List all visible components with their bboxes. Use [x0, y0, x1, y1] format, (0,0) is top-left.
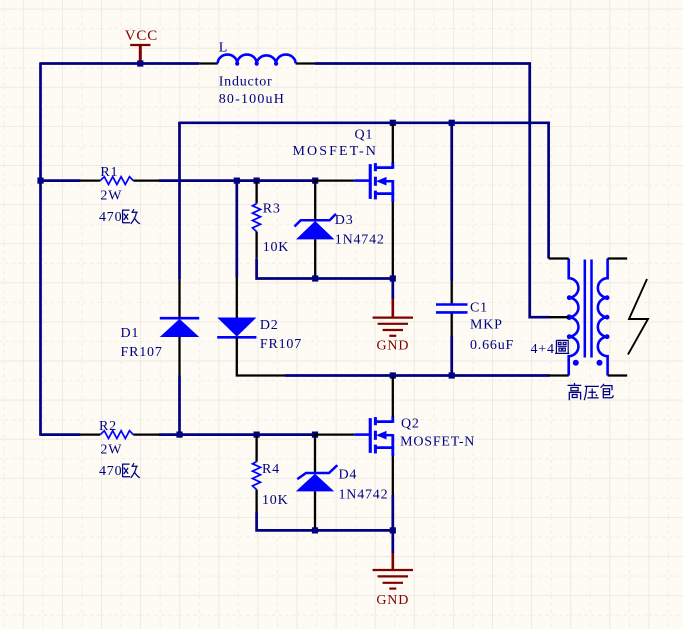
svg-text:C1: C1 — [470, 301, 488, 316]
junction C1 top — [449, 120, 455, 126]
label D3 1N4742 — [335, 233, 385, 248]
label Q2 designator — [401, 416, 420, 431]
mosfet Q1 — [315, 124, 393, 278]
label R1 470ohm — [99, 209, 140, 225]
pin Q1 drain — [392, 124, 394, 163]
label Q2 MOSFET-N — [400, 435, 475, 450]
svg-text:4+4: 4+4 — [531, 342, 555, 357]
svg-text:10K: 10K — [262, 493, 289, 508]
wire drain2 bottom horizontal — [285, 374, 550, 377]
label D3 designator — [335, 213, 354, 228]
junction at VCC tap — [137, 60, 143, 66]
pin T1 secondary top — [608, 257, 628, 259]
svg-text:470: 470 — [99, 210, 122, 225]
junction Q2 source rail — [390, 527, 396, 533]
svg-text:Q2: Q2 — [401, 416, 420, 431]
pin Q1 source — [392, 202, 394, 278]
svg-text:GND: GND — [376, 593, 409, 608]
wire gate2 line — [41, 433, 315, 436]
transformer T1 core — [585, 260, 592, 358]
label 80-100uH — [219, 92, 285, 107]
pin T1 primary bottom — [549, 374, 569, 376]
label R4 10K — [262, 493, 289, 508]
pin Q2 source — [392, 456, 394, 495]
svg-text:80-100uH: 80-100uH — [219, 92, 285, 107]
pin T1 primary top — [549, 257, 569, 259]
ground GND1 — [373, 279, 413, 336]
label Inductor — [219, 74, 273, 89]
svg-text:2W: 2W — [100, 443, 122, 458]
label L designator — [219, 41, 228, 56]
pin Q2 drain — [392, 377, 394, 417]
wire left VCC rail vertical — [39, 62, 42, 435]
svg-text:VCC: VCC — [125, 28, 158, 44]
wire gate1 line — [41, 179, 315, 182]
junction D4 top — [312, 432, 318, 438]
svg-text:R4: R4 — [262, 462, 280, 477]
power symbol VCC — [130, 45, 150, 63]
transformer T1 secondary winding — [598, 259, 610, 376]
wire D1 branch upper vertical — [178, 123, 181, 280]
label 高压包 — [568, 383, 614, 400]
label R3 designator — [263, 202, 281, 217]
svg-text:1N4742: 1N4742 — [339, 487, 389, 502]
transformer T1 primary winding — [566, 259, 578, 376]
wire R3 bottom to rail — [257, 259, 393, 279]
svg-text:MOSFET-N: MOSFET-N — [400, 435, 475, 450]
resistor R3 — [253, 181, 261, 259]
wire VCC to transformer center tap — [530, 62, 550, 317]
junction gate1 at left rail — [37, 178, 43, 184]
diode D2 — [217, 181, 285, 376]
zener D3 — [295, 181, 336, 279]
junction D3 top — [312, 178, 318, 184]
junction D2 top — [234, 178, 240, 184]
label D4 designator — [339, 467, 358, 482]
junction C1 bottom — [449, 372, 455, 378]
label Q1 designator — [355, 128, 374, 143]
label D2 designator — [260, 318, 279, 333]
svg-text:GND: GND — [377, 339, 410, 354]
label R3 10K — [263, 240, 290, 255]
svg-text:1N4742: 1N4742 — [335, 233, 385, 248]
zener D4 — [296, 435, 338, 531]
svg-text:10K: 10K — [263, 240, 290, 255]
resistor R1 — [80, 177, 160, 185]
svg-text:D3: D3 — [335, 213, 354, 228]
svg-text:0.66uF: 0.66uF — [470, 338, 514, 353]
junction Q2 drain on bottom wire — [390, 372, 396, 378]
spark gap — [628, 279, 648, 355]
inductor L — [199, 55, 315, 66]
wire Q2 source to rail — [391, 495, 394, 530]
label R1 designator — [100, 165, 118, 180]
mosfet Q2 — [315, 377, 393, 495]
junction R4 top — [254, 432, 260, 438]
svg-text:D2: D2 — [260, 318, 279, 333]
resistor R2 — [80, 431, 160, 439]
label C1 designator — [470, 301, 488, 316]
label R2 designator — [99, 419, 117, 434]
transformer T1 polarity dots — [573, 360, 603, 366]
label D1 FR107 — [121, 345, 163, 360]
wire drain1 horizontal — [180, 122, 549, 259]
resistor R4 — [253, 435, 261, 512]
pin T1 center tap — [549, 316, 569, 318]
junction D3 bottom — [312, 275, 318, 281]
svg-text:D1: D1 — [121, 326, 140, 341]
svg-text:Q1: Q1 — [355, 128, 374, 143]
label R1 2W — [100, 189, 122, 204]
label C1 0.66uF — [470, 338, 514, 353]
svg-text:R1: R1 — [100, 165, 118, 180]
label D4 1N4742 — [339, 487, 389, 502]
ground GND2 — [373, 530, 413, 588]
capacitor C1 — [436, 123, 468, 376]
pin T1 secondary bottom — [608, 374, 628, 376]
junction R3 top — [254, 178, 260, 184]
label 4+4 turns — [531, 340, 570, 357]
svg-text:FR107: FR107 — [121, 345, 163, 360]
label VCC — [125, 28, 158, 44]
label D1 designator — [121, 326, 140, 341]
svg-text:FR107: FR107 — [260, 337, 302, 352]
svg-text:R3: R3 — [263, 202, 281, 217]
svg-text:Inductor: Inductor — [219, 74, 273, 89]
label R2 470ohm — [99, 463, 140, 479]
junction D4 bottom — [312, 527, 318, 533]
wire D1 bottom to gate2 line — [178, 376, 181, 435]
svg-text:R2: R2 — [99, 419, 117, 434]
label GND1 — [377, 339, 410, 354]
svg-text:L: L — [219, 41, 228, 56]
wire R4 bottom to rail2 — [257, 512, 393, 530]
label Q1 MOSFET-N — [293, 144, 379, 159]
label R4 designator — [262, 462, 280, 477]
svg-text:470: 470 — [99, 464, 122, 479]
diode D1 — [160, 280, 199, 376]
label D2 FR107 — [260, 337, 302, 352]
svg-text:MOSFET-N: MOSFET-N — [293, 144, 379, 159]
label C1 MKP — [470, 318, 503, 333]
label GND2 — [376, 593, 409, 608]
wire VCC top rail right segment — [315, 62, 531, 65]
svg-text:MKP: MKP — [470, 318, 503, 333]
junction D1 bottom at gate2 — [176, 432, 182, 438]
junction Q1 source rail — [390, 275, 396, 281]
svg-text:2W: 2W — [100, 189, 122, 204]
svg-text:D4: D4 — [339, 467, 358, 482]
label R2 2W — [100, 443, 122, 458]
junction Q1 drain — [390, 120, 396, 126]
wire VCC top rail left segment — [41, 62, 200, 65]
